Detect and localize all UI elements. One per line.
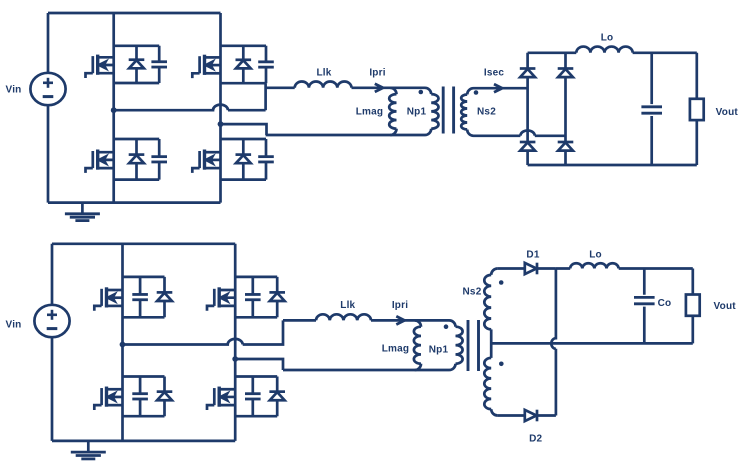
snubber capacitor of Q4 xyxy=(258,157,274,162)
body diode of Q4 xyxy=(236,155,252,164)
MOSFET Q8 xyxy=(207,387,235,410)
svg-text:Vin: Vin xyxy=(6,320,22,331)
wire: left input rail (bottom Vin branch) xyxy=(51,244,54,441)
wire: rectified node vertical with hop over center-tap wire xyxy=(551,269,556,416)
svg-text:Llk: Llk xyxy=(316,68,331,79)
winding Np1 bumps xyxy=(431,94,438,129)
wire: input bottom rail (bottom) xyxy=(52,440,235,443)
switch cell Q2: snubber box xyxy=(221,44,267,47)
diode D1 xyxy=(525,263,537,275)
winding Ns2 (top) xyxy=(467,88,473,94)
node A: leg-A midpoint junction xyxy=(111,107,117,113)
snubber capacitor of Q2 xyxy=(258,62,274,67)
inductor Lmag winding (bottom) xyxy=(415,320,421,326)
wire: primary top run (Llk to Np1) xyxy=(266,88,432,94)
MOSFET Q5 xyxy=(94,287,122,310)
inductor Lmag winding xyxy=(390,88,396,94)
wire: Q2 source corner down to node wire xyxy=(264,83,267,110)
wire: leg-A mid to Llk, hops over leg B (bottom) xyxy=(123,320,284,344)
svg-text:Ipri: Ipri xyxy=(369,68,385,79)
rectifier diode top-right xyxy=(558,69,574,78)
wire: top rail of input bridge xyxy=(48,12,221,15)
rectifier diode bottom-left xyxy=(520,142,536,151)
switch cell Q7: snubber box xyxy=(123,375,165,378)
output capacitor Co branch xyxy=(643,269,646,344)
winding Lmag bumps xyxy=(389,94,396,129)
ground (bottom circuit) xyxy=(87,441,90,452)
svg-text:Lo: Lo xyxy=(601,33,614,44)
svg-text:Lmag: Lmag xyxy=(382,344,409,355)
winding Ns2 upper half (bottom) xyxy=(491,269,497,275)
winding Ns2 upper bumps xyxy=(484,275,491,329)
MOSFET Q6 xyxy=(207,287,235,310)
MOSFET Q2 xyxy=(192,55,220,78)
snubber capacitor of Q6 xyxy=(245,294,261,299)
wire: output top rail (top circuit) xyxy=(528,51,697,54)
ground (top circuit) xyxy=(81,203,84,214)
body diode of Q5 xyxy=(157,292,173,301)
body diode of Q7 xyxy=(157,392,173,401)
wire: input bottom rail xyxy=(48,201,221,204)
svg-text:D2: D2 xyxy=(529,434,542,445)
snubber capacitor of Q1 xyxy=(151,62,167,67)
winding Np1 bumps (bottom) xyxy=(456,327,463,364)
wire: center-tap return rail xyxy=(491,342,693,345)
switch cell Q5: snubber box xyxy=(123,276,165,279)
winding Lmag bumps (bottom) xyxy=(414,327,421,364)
body diode of Q1 xyxy=(129,60,145,69)
rectifier diode bottom-right xyxy=(558,142,574,151)
svg-text:Ns2: Ns2 xyxy=(463,287,482,298)
inductor Lo (bottom) xyxy=(570,263,618,268)
wire: output top rail (bottom circuit) xyxy=(556,267,693,270)
node B: leg-B midpoint junction xyxy=(218,121,224,127)
switch cell Q3: snubber box xyxy=(114,138,160,141)
wire: primary bottom run (bottom) xyxy=(283,364,456,370)
svg-text:Vin: Vin xyxy=(6,85,22,96)
winding Ns2 lower bumps xyxy=(484,358,491,409)
wire: lower secondary to D2 xyxy=(498,414,525,417)
transformer core bars (bottom) xyxy=(468,320,479,371)
svg-text:Isec: Isec xyxy=(484,68,505,79)
snubber capacitor of Q7 xyxy=(132,394,148,399)
arrow Ipri (bottom) xyxy=(396,316,404,324)
svg-text:Llk: Llk xyxy=(340,300,355,311)
load resistor Vout (top) xyxy=(695,53,698,165)
switch cell Q6: snubber box xyxy=(235,276,277,279)
wire: bridge leg B (bottom right) xyxy=(234,244,237,441)
arrow Ipri (top) xyxy=(375,84,383,92)
wire: leg-B midpoint to transformer bottom xyxy=(221,124,267,135)
wire: secondary bottom run with hop over left rectifier column xyxy=(474,134,566,137)
wire: bridge leg A (left) xyxy=(112,13,115,203)
winding Ns2 bumps (top) xyxy=(461,95,467,130)
svg-text:Ns2: Ns2 xyxy=(477,107,496,118)
node: leg-B midpoint (bottom) xyxy=(232,356,238,362)
wire: primary top run (bottom) xyxy=(283,320,456,326)
wire: bridge leg A (bottom left) xyxy=(121,244,124,441)
rectifier left column xyxy=(526,53,529,165)
svg-text:Np1: Np1 xyxy=(429,345,449,356)
svg-text:Lmag: Lmag xyxy=(356,107,383,118)
svg-text:Ipri: Ipri xyxy=(392,300,408,311)
wire: D2 cathode to vertical xyxy=(537,414,556,417)
polarity dot Np1 xyxy=(419,90,424,95)
inductor Lo (top) xyxy=(576,47,632,53)
snubber capacitor of Q8 xyxy=(245,394,261,399)
snubber capacitor of Q5 xyxy=(132,294,148,299)
polarity dot Ns2 upper xyxy=(499,280,504,285)
output capacitor branch (top) xyxy=(650,53,653,165)
svg-text:Np1: Np1 xyxy=(407,107,427,118)
wire: bridge leg B (right) xyxy=(219,13,222,203)
wire: D1 cathode to Lo node xyxy=(537,267,556,270)
voltage source Vin symbol xyxy=(30,73,65,105)
snubber capacitor of Q3 xyxy=(151,157,167,162)
wire: Isec run to rectifier xyxy=(474,87,528,90)
MOSFET Q3 xyxy=(86,150,114,173)
rectifier right column xyxy=(564,53,567,165)
switch cell Q4: snubber box xyxy=(221,138,267,141)
capacitor Co xyxy=(634,297,655,303)
MOSFET Q4 xyxy=(192,150,220,173)
hop arc over left rectifier column xyxy=(520,130,534,135)
polarity dot Ns2 (top) xyxy=(474,90,479,95)
MOSFET Q7 xyxy=(94,387,122,410)
svg-text:D1: D1 xyxy=(526,250,539,261)
body diode of Q6 xyxy=(269,292,285,301)
svg-text:Co: Co xyxy=(658,298,672,309)
body diode of Q3 xyxy=(129,155,145,164)
polarity dot Np1 (bottom) xyxy=(444,324,449,329)
wire: center-tap lead xyxy=(490,329,493,358)
load resistor Vout (bottom) xyxy=(691,269,694,344)
rectifier diode top-left xyxy=(520,69,536,78)
svg-text:Lo: Lo xyxy=(589,250,602,261)
wire: primary bottom run xyxy=(266,129,432,135)
wire: leg-B mid to transformer bottom (bottom) xyxy=(235,359,283,370)
output capacitor (top) xyxy=(641,107,662,113)
switch cell Q1: snubber box xyxy=(114,44,160,47)
wire: top rail of input bridge (bottom) xyxy=(52,242,235,245)
voltage source Vin symbol (bottom) xyxy=(34,305,69,337)
svg-text:Vout: Vout xyxy=(714,301,737,312)
node: leg-A midpoint (bottom) xyxy=(120,342,126,348)
wire: output bottom rail (top circuit) xyxy=(528,164,697,167)
svg-text:Vout: Vout xyxy=(716,107,739,118)
body diode of Q8 xyxy=(269,392,285,401)
diode D2 xyxy=(525,410,537,422)
wire: left input rail (Vin branch) xyxy=(47,13,50,203)
switch cell Q8: snubber box xyxy=(235,375,277,378)
polarity dot Ns2 lower xyxy=(499,362,504,367)
wire: upper secondary to D1 xyxy=(498,267,525,270)
MOSFET Q1 xyxy=(86,55,114,78)
body diode of Q2 xyxy=(236,60,252,69)
wire: leg-A midpoint to transformer, hops over leg B xyxy=(114,105,266,111)
transformer core bars (top) xyxy=(443,87,453,134)
arrow Isec xyxy=(494,84,502,92)
inductor Llk (bottom) xyxy=(316,314,371,320)
inductor Llk (top) xyxy=(295,81,352,87)
